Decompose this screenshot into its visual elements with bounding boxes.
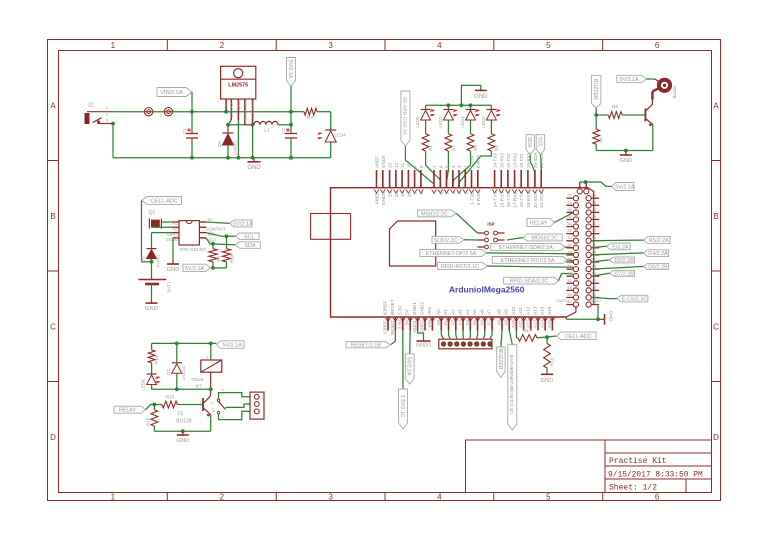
svg-text:GND2: GND2 [420,302,425,315]
svg-text:5V/2.1A: 5V/2.1A [223,343,243,349]
svg-text:5V: 5V [405,308,410,315]
relay emitter wire and bottom rail [154,415,210,433]
svg-text:1N4021: 1N4021 [181,365,186,380]
svg-text:A13: A13 [533,306,538,315]
svg-text:7: 7 [432,192,437,195]
svg-text:SD-ARD-CS/2.4A: SD-ARD-CS/2.4A [401,96,407,135]
flag RFID-RST/2.1C [438,263,574,270]
svg-text:ETHERNET-RST/2.5A: ETHERNET-RST/2.5A [501,258,555,264]
svg-text:25: 25 [592,200,597,205]
svg-text:OUTPUT: OUTPUT [229,100,234,117]
svg-text:VIN: VIN [427,320,432,328]
svg-text:A0: A0 [436,309,441,315]
svg-text:16-TX2: 16-TX2 [506,153,511,168]
svg-text:RS/2.2A: RS/2.2A [649,238,669,244]
svg-text:R6: R6 [612,104,618,110]
svg-text:Buzzer: Buzzer [672,85,677,99]
svg-text:E-CS/2.3C: E-CS/2.3C [622,297,648,303]
svg-text:17-RX2: 17-RX2 [513,192,518,208]
relay coil K7 [191,343,221,392]
svg-text:IOREF: IOREF [383,301,388,315]
svg-text:15-RX3: 15-RX3 [499,152,504,168]
svg-text:5V/2.1A: 5V/2.1A [619,77,639,83]
svg-text:C: C [221,415,224,419]
svg-text:CELL-ADC: CELL-ADC [565,334,592,340]
svg-text:A3: A3 [458,309,463,315]
svg-text:A5: A5 [472,320,477,326]
flag D7/2.2B [591,270,634,277]
svg-text:41: 41 [592,257,597,262]
svg-text:6: 6 [438,192,443,195]
resistor R14 [148,343,159,374]
svg-text:GND: GND [145,306,158,312]
arduino bottom pins [383,299,555,335]
svg-text:5V/2.1A: 5V/2.1A [615,184,635,190]
svg-text:29: 29 [592,214,597,219]
flag RESET/2.1B [346,330,395,349]
svg-text:5V: 5V [405,320,410,326]
resistor R8 [593,129,604,150]
flag 5V/2.1A header [580,180,635,190]
svg-text:AREF: AREF [375,156,380,168]
svg-text:22: 22 [567,193,572,198]
svg-text:2: 2 [206,355,208,359]
svg-text:A7: A7 [487,309,492,315]
svg-text:BAT1: BAT1 [167,281,172,293]
svg-text:3.3V: 3.3V [397,320,402,329]
svg-text:VIN: VIN [427,307,432,315]
svg-text:A11: A11 [518,320,523,328]
svg-text:R8: R8 [599,137,604,143]
svg-text:A10: A10 [511,306,516,315]
svg-text:GND0: GND0 [381,192,386,205]
svg-text:D: D [713,433,719,442]
svg-text:20-SDA: 20-SDA [533,191,538,208]
ISP header [478,222,505,249]
parallel wire led/diode to coil [152,387,213,391]
flag RFID-SDA/2.2C [504,273,574,284]
svg-text:A: A [713,102,719,111]
arduino top pins [374,152,544,208]
svg-text:ArdunioIMega2560: ArdunioIMega2560 [449,285,525,295]
svg-text:A13: A13 [533,320,538,329]
svg-text:46: 46 [567,278,572,283]
svg-text:GND: GND [541,378,554,384]
svg-text:A9: A9 [504,309,509,315]
svg-text:5: 5 [546,493,551,502]
flag ETHERNET-RST/2.5A [492,257,573,264]
buzzer emitter wire and ground [596,125,653,165]
svg-text:ETHERNET-SDA/2.5A: ETHERNET-SDA/2.5A [499,245,554,251]
svg-text:GND: GND [474,94,488,100]
transistor T4 buzzer [644,100,653,127]
text ArduinoMega2560 [449,285,525,295]
svg-text:1: 1 [111,493,116,502]
crystal Q1 [149,210,173,229]
svg-text:3: 3 [457,192,462,195]
resistor R7 [291,108,331,130]
svg-text:38: 38 [567,249,572,254]
flag 5V/2.1A buzzer [617,75,659,83]
svg-text:SDA: SDA [526,137,532,148]
LED3 [438,105,458,133]
svg-text:A11: A11 [518,307,523,315]
ground relay [176,431,189,444]
svg-text:51: 51 [592,292,597,297]
regulator U1 LM2575 [221,66,256,125]
svg-text:IOREF: IOREF [383,320,388,334]
LED2 [481,105,501,133]
svg-text:E/2.2A: E/2.2A [612,244,629,250]
svg-text:13: 13 [388,162,393,168]
resistor R6 [596,104,644,118]
svg-text:LED3: LED3 [438,116,443,128]
svg-text:R14: R14 [154,355,159,364]
svg-text:P: P [211,402,214,406]
psu bottom rail [113,156,331,160]
svg-text:21-SCL: 21-SCL [539,152,544,168]
svg-text:T5: T5 [177,412,183,418]
svg-text:1-TX0: 1-TX0 [470,155,475,168]
svg-text:27: 27 [592,207,597,212]
svg-text:11: 11 [400,163,405,168]
flag 3.3V/2.1C bottom [399,330,408,429]
svg-text:Sheet: 1/2: Sheet: 1/2 [609,484,657,493]
resistor R3 [467,134,478,151]
svg-text:FEEDBACK: FEEDBACK [242,101,247,123]
flag 5V/2.1A relay [152,341,244,349]
svg-text:GND0: GND0 [381,155,386,168]
svg-text:C: C [713,323,719,332]
wires led array to arduino pins [426,151,492,188]
svg-text:SCL: SCL [536,137,542,147]
svg-text:A4: A4 [465,320,470,326]
capacitor C2 [281,125,297,158]
wire jack to regulator [111,112,291,158]
svg-text:RELAY: RELAY [530,221,548,227]
resistor R9 [209,244,221,262]
svg-text:3: 3 [328,493,333,502]
svg-text:3.3V/2.1C: 3.3V/2.1C [399,394,405,417]
svg-text:44: 44 [567,271,572,276]
svg-text:R3: R3 [473,145,478,151]
svg-text:21-SCL: 21-SCL [539,192,544,208]
svg-text:30: 30 [567,221,572,226]
svg-text:R1: R1 [428,145,433,151]
svg-text:37: 37 [592,242,597,247]
svg-text:A3: A3 [458,320,463,326]
resistor R17 [516,328,556,341]
LED6 [141,374,161,391]
flag CELL-ADC bottom [557,332,597,340]
buzzer SG1 [652,78,677,99]
ground rtc [167,238,180,273]
svg-text:A6: A6 [479,309,484,315]
svg-text:14-TX3: 14-TX3 [493,192,498,208]
svg-text:A14: A14 [540,320,545,329]
flag SD-ARD-CS/2.4A [401,91,434,188]
title block [466,440,712,493]
svg-text:C: C [50,323,56,332]
svg-text:GND: GND [176,438,189,444]
svg-text:A14: A14 [540,306,545,315]
flag RELAY arduino [527,212,574,226]
svg-text:A12: A12 [525,320,530,329]
svg-text:5V/2.1A: 5V/2.1A [287,60,293,79]
svg-text:5V/2.1A: 5V/2.1A [406,357,412,376]
svg-text:CELL-ADC: CELL-ADC [151,198,178,204]
svg-text:R17: R17 [523,328,532,334]
flag 5V/2.1A rtc [206,220,253,228]
svg-text:BUZZER: BUZZER [592,79,598,100]
svg-text:B: B [713,212,718,221]
svg-text:GND: GND [167,267,180,273]
svg-text:3: 3 [328,41,333,50]
svg-text:RFID-RST/2.1C: RFID-RST/2.1C [441,264,479,270]
svg-text:L1: L1 [264,128,270,134]
flag CELL-ADC rtc [142,197,182,264]
flag BUZZER top [591,75,601,129]
header bottom wires and ground [566,306,613,325]
svg-text:R9: R9 [216,256,221,262]
svg-text:C2: C2 [281,128,287,134]
svg-text:43: 43 [592,264,597,269]
svg-text:14-TX3: 14-TX3 [493,153,498,168]
resistor R16 [145,405,157,432]
svg-text:A8: A8 [497,320,502,326]
svg-text:LED5: LED5 [415,116,420,128]
svg-text:39: 39 [592,249,597,254]
flag VIN/2.5A [157,88,194,114]
flag MISO/2.2C [418,210,478,233]
svg-text:2: 2 [220,493,225,502]
flag 5V/2.1A psu [287,58,296,125]
svg-text:R7: R7 [307,115,313,121]
IC U2 RTC DS1307 [166,217,226,252]
svg-text:SCK/2.2C: SCK/2.2C [434,238,458,244]
flag SCK/2.2C [432,236,478,243]
svg-text:G5LE: G5LE [191,377,203,383]
svg-text:K7: K7 [196,384,202,390]
svg-text:BUZZER: BUZZER [497,349,503,370]
svg-text:0-RX0: 0-RX0 [476,155,481,168]
usb box left [311,214,351,240]
svg-text:6: 6 [655,493,660,502]
svg-text:SDA: SDA [244,243,255,249]
svg-text:12: 12 [394,162,399,168]
pad P2 [164,108,172,116]
connector X2 3pin [250,392,264,419]
flag EATHERNET-RESET/2.3D [508,330,517,430]
svg-text:33: 33 [592,228,597,233]
diode D5 1N4021 [141,233,173,268]
svg-text:GND0: GND0 [166,237,178,242]
svg-text:R18: R18 [550,357,555,366]
flag MOSI/2.2C [507,234,562,242]
svg-text:35: 35 [592,235,597,240]
svg-text:A12: A12 [525,306,530,315]
flag ETHERNET-SDA/2.5A [491,244,574,251]
svg-text:GND1: GND1 [412,302,417,315]
svg-text:GND: GND [247,165,261,171]
flag SCL rtc [206,233,259,241]
svg-text:36: 36 [567,242,572,247]
svg-text:19-RX1: 19-RX1 [526,152,531,168]
svg-text:10: 10 [406,162,411,168]
svg-text:A2: A2 [450,320,455,326]
svg-text:MOSI/2.2C: MOSI/2.2C [531,235,558,241]
svg-text:GND: GND [236,101,241,110]
svg-text:A7: A7 [487,320,492,326]
svg-text:26: 26 [567,207,572,212]
svg-text:LED4: LED4 [334,133,346,138]
led array top bus wire [426,85,492,107]
svg-text:18-TX1: 18-TX1 [519,153,524,168]
svg-text:42: 42 [567,264,572,269]
LED4 [460,105,480,133]
svg-text:5V/2.1A: 5V/2.1A [185,266,205,272]
svg-text:3.3V: 3.3V [397,304,402,315]
flag D6/2.2B [591,263,668,270]
svg-text:34: 34 [567,235,572,240]
svg-text:32: 32 [567,228,572,233]
resistor R4 [488,134,499,151]
flag SCL [536,135,545,188]
svg-text:GNDLT: GNDLT [556,298,570,303]
resistor R18 [544,337,555,372]
svg-text:24: 24 [567,200,572,205]
svg-text:D2: D2 [166,369,171,375]
svg-text:K7: K7 [212,408,216,412]
svg-text:J2: J2 [88,103,94,109]
svg-text:2: 2 [220,41,225,50]
svg-text:MISO/2.2C: MISO/2.2C [421,211,448,217]
svg-text:17-RX2: 17-RX2 [513,152,518,168]
flag ETHERNET-DP/2.5A [420,250,574,257]
header 8pin X3 [439,330,493,349]
svg-text:0-RX0: 0-RX0 [476,192,481,206]
svg-text:11: 11 [400,192,405,197]
svg-text:13: 13 [388,192,393,198]
svg-text:D6/2.2B: D6/2.2B [648,265,668,271]
svg-text:2: 2 [463,192,468,195]
svg-text:D7/2.2B: D7/2.2B [614,271,634,277]
connector J2 power jack [85,103,114,125]
capacitor C1 [182,112,198,158]
svg-text:A5: A5 [472,309,477,315]
LED5 [415,105,435,133]
resistor R10 [222,236,234,263]
flag D5/2.2B [591,257,634,264]
ground battery [145,301,158,312]
svg-text:40: 40 [567,257,572,262]
svg-text:A4: A4 [465,309,470,315]
resistor R1 [422,134,433,151]
svg-text:5: 5 [445,192,450,195]
resistor R2 [445,134,456,151]
svg-text:ON/OFF: ON/OFF [250,100,255,116]
svg-text:1N4021: 1N4021 [233,140,238,155]
svg-text:RESET: RESET [390,299,395,315]
inner bevel box [390,221,436,266]
svg-text:GNDL2: GNDL2 [588,298,602,303]
ground R18 [541,373,554,384]
svg-text:GND: GND [619,158,632,164]
svg-text:RESET: RESET [390,320,395,335]
svg-text:4: 4 [437,493,442,502]
svg-text:15-RX3: 15-RX3 [499,192,504,208]
svg-text:R10: R10 [230,254,235,263]
svg-text:A9: A9 [504,320,509,326]
svg-text:R16: R16 [145,417,150,426]
svg-text:9: 9 [413,192,418,195]
svg-text:A2: A2 [450,309,455,315]
svg-text:48: 48 [567,285,572,290]
svg-text:GND/1: GND/1 [416,343,432,349]
svg-text:GND1: GND1 [412,320,417,333]
flag E-CS/2.3C [591,295,648,302]
resistor R15 [162,395,203,408]
svg-text:D5: D5 [141,256,146,262]
svg-text:6: 6 [655,41,660,50]
svg-text:20-SDA: 20-SDA [533,152,538,168]
svg-text:SCL: SCL [244,234,255,240]
header JP right dual row [556,182,602,307]
flag D4/2.2A [591,250,668,257]
svg-text:18-TX1: 18-TX1 [519,192,524,208]
svg-text:D6: D6 [217,141,222,147]
svg-text:LED6: LED6 [141,379,146,391]
pad P1 [144,108,152,116]
ground GND/1 [416,330,432,349]
svg-text:5V: 5V [208,217,213,222]
svg-text:50: 50 [567,292,572,297]
svg-text:BD139: BD139 [176,418,192,424]
svg-text:GND2: GND2 [420,320,425,333]
svg-text:B: B [50,212,55,221]
svg-text:1N4021: 1N4021 [156,253,161,268]
svg-text:12: 12 [394,192,399,198]
transistor T5 BD139 [176,392,214,424]
svg-text:1-TX0: 1-TX0 [470,192,475,205]
svg-text:A6: A6 [479,320,484,326]
svg-text:D5/2.2B: D5/2.2B [614,258,634,264]
svg-text:A1: A1 [443,320,448,326]
flag 5V/2.1A pullups [183,262,227,272]
diode D2 1N4021 [166,343,186,389]
svg-text:RFID-SDA/2.2C: RFID-SDA/2.2C [510,279,548,285]
svg-text:49: 49 [592,285,597,290]
svg-text:A8: A8 [497,309,502,315]
flag RELAY [114,403,162,414]
svg-text:R15: R15 [166,395,175,401]
svg-text:EATHERNET-RESET/2.3D: EATHERNET-RESET/2.3D [508,355,514,414]
svg-text:5: 5 [546,41,551,50]
svg-text:X2: X2 [172,226,178,231]
LED4 [318,130,347,158]
flag E/2.2A [591,243,630,250]
svg-text:RELAY: RELAY [119,408,137,414]
svg-text:31: 31 [592,221,597,226]
svg-text:A0: A0 [436,320,441,326]
svg-text:A15: A15 [547,320,552,329]
svg-text:4: 4 [451,192,456,195]
svg-text:8: 8 [419,192,424,195]
wires regulator pins [224,110,254,158]
svg-text:LED2: LED2 [481,116,486,128]
svg-text:R4: R4 [494,145,499,151]
svg-text:D: D [50,433,56,442]
